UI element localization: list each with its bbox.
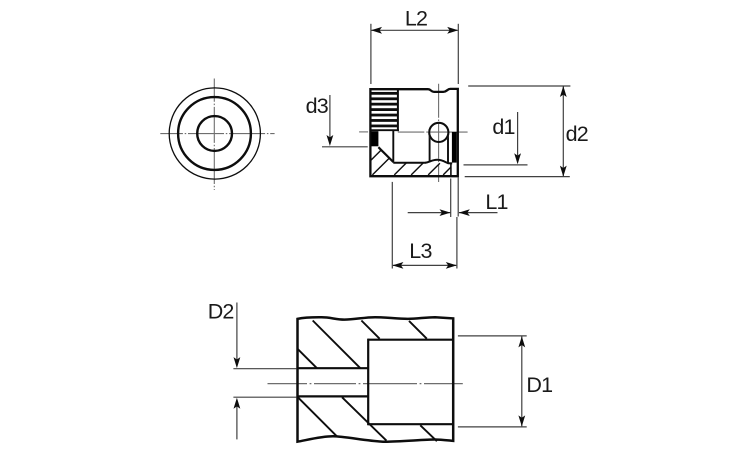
d2 top arrow [560, 86, 567, 97]
hex hole top line [393, 162, 425, 164]
knurl stripe 5 [371, 114, 397, 117]
bottom view outer outline with wavy break edges [298, 317, 454, 442]
svg-text:L2: L2 [405, 7, 427, 31]
svg-text:d2: d2 [566, 122, 588, 146]
section view axis centerline right segment [398, 131, 468, 133]
svg-text:d3: d3 [306, 94, 329, 118]
d1 extension line [464, 164, 528, 166]
knurl stripe 4 [371, 108, 397, 111]
section view axis centerline left segment [359, 131, 368, 133]
drive channel top line [298, 367, 369, 369]
strip hatch S1 [394, 163, 406, 175]
d3 extension line [322, 146, 368, 148]
L3 left arrow [392, 262, 403, 269]
L2 left extension line [370, 24, 372, 84]
dimension L2 [371, 7, 458, 84]
L1 left dimension segment [408, 212, 451, 214]
left groove black bar [371, 131, 378, 146]
L1 right arrow [459, 209, 470, 216]
d3 arrow [327, 135, 334, 146]
hex hole wavy break line [425, 160, 452, 164]
D2 upper dimension line [236, 303, 238, 367]
knurl stripe 6 [371, 119, 397, 122]
D2 lower dimension line [236, 400, 238, 440]
d2 bottom arrow [560, 166, 567, 177]
pin hole mask [428, 122, 449, 143]
d1 leader line [517, 112, 519, 162]
L1 left arrow [440, 209, 451, 216]
strip hatch S2 [411, 163, 423, 175]
pin hole vertical centerline [438, 84, 440, 182]
svg-text:D2: D2 [208, 300, 234, 324]
L3 dimension line [393, 264, 456, 266]
D2 upper arrow [234, 357, 241, 368]
knurl stripe 2 [371, 97, 397, 100]
bottom view hatch T4 [409, 321, 427, 339]
right groove black bar [452, 132, 457, 163]
dimension D1 [458, 336, 552, 427]
pin hole circle [429, 123, 448, 142]
drive channel bottom line [298, 395, 369, 397]
hatch A left triangle [371, 150, 381, 160]
dimension d1 [464, 112, 528, 165]
bottom view centerline [268, 383, 463, 385]
D2 lower extension line [233, 396, 296, 398]
L1 right dimension segment [459, 212, 498, 214]
front view horizontal centerline [160, 133, 274, 135]
bottom view hatch T1 [298, 349, 317, 368]
bore inner rectangle top line [368, 339, 453, 341]
dimension L1 [408, 178, 508, 218]
drive hole left wall [392, 130, 394, 163]
bottom view hatch B2 [342, 397, 386, 440]
knurl box bottom edge [370, 129, 399, 131]
d1 arrow [514, 153, 521, 164]
knurl stripe 1 [371, 92, 397, 95]
front view middle circle [178, 97, 251, 170]
bore inner rectangle bottom line [368, 423, 453, 425]
dimension L3 [392, 182, 457, 269]
bottom view hatch B3 [420, 425, 437, 441]
strip hatch S3 [428, 163, 440, 175]
D2 lower arrow [234, 398, 241, 409]
D2 upper extension line [233, 368, 296, 370]
L3 right arrow [446, 262, 457, 269]
dimension d2 [465, 86, 588, 177]
D1 dimension line [521, 336, 523, 426]
bottom view hatch T3 [361, 321, 379, 339]
knurl stripe 7 [371, 125, 397, 128]
bore inner rectangle left line [367, 339, 369, 426]
front view vertical centerline [213, 79, 215, 191]
L3 left extension line [391, 182, 393, 269]
d3 leader line [329, 95, 331, 144]
chamfer line [378, 147, 393, 162]
svg-text:L3: L3 [409, 239, 432, 263]
L2 left arrow [371, 27, 382, 34]
svg-text:d1: d1 [492, 115, 514, 139]
D1 top extension line [458, 335, 527, 337]
front view outer circle [169, 88, 260, 179]
D1 bottom extension line [458, 426, 527, 428]
d2 bottom extension line [465, 176, 570, 178]
L2 right extension line [457, 24, 459, 84]
D1 top arrow [518, 336, 525, 347]
knurl stripe 3 [371, 103, 397, 106]
bottom view hatch T2 [313, 321, 361, 369]
pin hole right wall [447, 134, 449, 163]
hatch B left triangle [372, 158, 389, 175]
dimension D2 [208, 300, 297, 440]
strip hatch S4 [443, 167, 451, 175]
L3 right extension line [456, 217, 458, 269]
L2 right arrow [447, 27, 458, 34]
knurl box right edge [397, 89, 399, 132]
bottom cell divider [450, 163, 452, 175]
D1 bottom arrow [518, 415, 525, 426]
d2 top extension line [468, 85, 570, 87]
svg-text:D1: D1 [526, 373, 552, 397]
svg-text:L1: L1 [485, 190, 507, 214]
bottom view hatch B1 [298, 397, 337, 436]
L1 left extension line [450, 179, 452, 218]
d2 dimension line [562, 87, 564, 177]
body outline with top dip [370, 89, 457, 176]
L1 right extension line [457, 178, 459, 217]
front view inner circle [197, 116, 232, 151]
pin hole left wall [429, 134, 431, 161]
dimension d3 [306, 94, 368, 147]
L2 dimension line [372, 29, 458, 31]
